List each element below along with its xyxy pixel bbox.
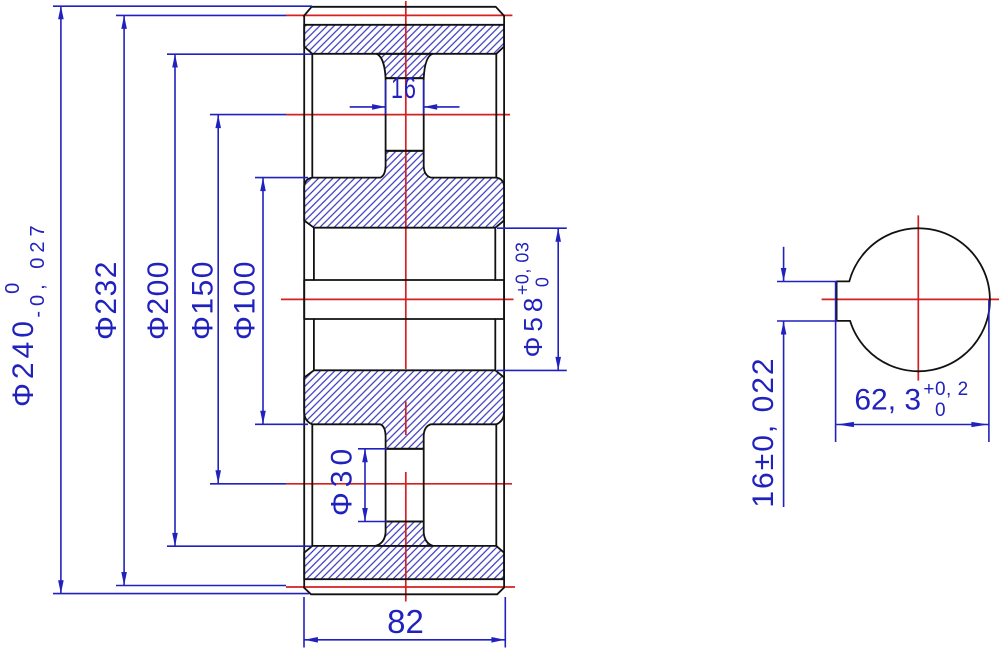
svg-text:Φ150: Φ150 [186,260,219,340]
svg-text:Φ232: Φ232 [90,260,123,340]
svg-text:0: 0 [533,277,553,288]
svg-text:16: 16 [391,72,417,105]
svg-text:-0, 027: -0, 027 [27,220,49,317]
svg-text:Φ100: Φ100 [229,260,262,340]
svg-text:Φ240: Φ240 [7,317,40,407]
svg-text:82: 82 [387,603,424,640]
svg-text:+0, 03: +0, 03 [513,242,533,296]
svg-text:0: 0 [2,282,24,294]
svg-text:+0, 2: +0, 2 [923,379,968,400]
svg-text:Φ58: Φ58 [518,293,548,358]
svg-text:Φ30: Φ30 [326,444,359,516]
svg-text:62, 3: 62, 3 [854,384,921,417]
svg-text:Φ200: Φ200 [142,260,175,340]
svg-text:16±0, 022: 16±0, 022 [747,356,780,507]
svg-text:0: 0 [935,400,946,421]
